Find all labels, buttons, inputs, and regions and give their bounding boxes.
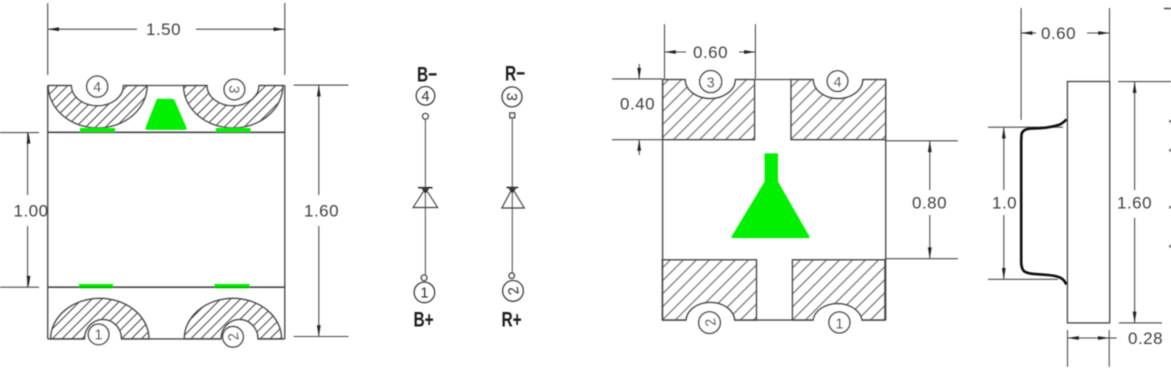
diode D2 (R) apex fill (509, 188, 517, 193)
svg-text:0.80: 0.80 (912, 194, 947, 213)
green bond pad bottom-left (79, 284, 113, 288)
pin 3 number circle (schematic) (502, 87, 522, 107)
svg-text:3: 3 (225, 85, 242, 94)
dimension 0.60 dimension line (bottom view) (665, 51, 687, 53)
green LED die (funnel) bottom view (732, 153, 810, 238)
pin 1 number circle (bottom view) (829, 312, 850, 333)
svg-text:0.60: 0.60 (1041, 24, 1076, 43)
dimension 0.40 extension line bottom (612, 139, 663, 141)
svg-text:1.0: 1.0 (992, 194, 1017, 213)
dimension 0.60 extension line right (bottom view) (754, 24, 756, 78)
dimension 1.60 extension line bottom (side view) (1119, 322, 1162, 324)
pin 4 number circle (bottom view) (827, 71, 848, 92)
pin 2 number circle (top view) (223, 327, 244, 348)
electrode profile curve (side view) (1021, 119, 1066, 284)
svg-text:0.60: 0.60 (693, 43, 728, 62)
svg-text:1: 1 (420, 286, 428, 302)
pin 2 number circle (bottom view) (699, 312, 721, 334)
dimension 1.60 extension line top (294, 84, 349, 86)
svg-text:1.60: 1.60 (304, 202, 339, 221)
svg-text:1: 1 (835, 316, 843, 332)
diode D1 (B) apex fill (422, 189, 430, 194)
dimension 1.00 dimension line (27, 133, 29, 195)
dimension 1.50 dimension line (48, 28, 137, 30)
dimension 0.80 extension line bottom (886, 258, 958, 260)
green LED die (trapezoid) top view (145, 99, 186, 130)
dimension 0.60 extension line left (side view) (1020, 8, 1022, 120)
dimension 1.0 dimension line (1003, 127, 1005, 190)
svg-text:4: 4 (833, 75, 841, 91)
dimension 1.00 extension line top (0, 132, 39, 134)
diode D1 (B) cathode bar (418, 187, 433, 189)
dimension 0.40 extension line top (612, 78, 663, 80)
solder pad 3 (bottom view top-left, hatched) (663, 80, 755, 140)
solder pad 1 (bottom view bottom-right, hatched) (792, 260, 885, 320)
castellation pad 2 (bottom-right, hatched half-annulus) (184, 298, 281, 339)
castellation pad 3 (top-right, hatched half-annulus) (184, 86, 283, 128)
castellation pad 4 (top-left, hatched half-annulus) (48, 86, 147, 128)
svg-text:2: 2 (506, 285, 523, 296)
svg-text:3: 3 (503, 92, 520, 101)
dimension 0.60 dimension line (side view) (1021, 32, 1036, 34)
package body outline side view (1067, 82, 1109, 323)
svg-text:1.00: 1.00 (14, 202, 49, 221)
svg-text:R+: R+ (502, 307, 522, 331)
castellation pad 1 (bottom-left, hatched half-annulus) (51, 298, 149, 339)
inner electrode line upper (48, 131, 285, 133)
pin 2 number circle (schematic) (503, 281, 524, 302)
dimension 1.00 extension line bottom (0, 286, 39, 288)
dimension 1.60 extension line top (side view) (1118, 81, 1171, 83)
svg-text:1: 1 (95, 328, 103, 344)
package body outline bottom view (663, 79, 686, 81)
svg-text:1.50: 1.50 (146, 20, 181, 39)
inner electrode line lower (48, 286, 285, 288)
dimension 1.60 dimension line (side view) (1134, 82, 1136, 190)
diode D2 (R) cathode bar (506, 187, 518, 189)
svg-text:B+: B+ (414, 307, 434, 331)
wire R cathode to anode (511, 118, 513, 273)
dimension 1.0 extension line top (988, 126, 1063, 128)
pin 4 number circle (schematic) (416, 87, 435, 106)
package body outline top view (48, 85, 72, 87)
dimension 0.28 dimension line (1068, 337, 1110, 339)
svg-text:0.40: 0.40 (620, 95, 655, 114)
anode terminal circle B (421, 275, 427, 281)
dimension 1.50 extension line left (47, 3, 49, 75)
green bond pad top-left (80, 128, 115, 132)
dimension 1.60 extension line bottom (294, 336, 349, 338)
diode D2 (R) triangle (502, 188, 525, 208)
dimension 0.60 extension line right (side view) (1109, 8, 1111, 82)
green bond pad bottom-right (215, 284, 250, 288)
dimension 0.28 extension line left (1067, 330, 1069, 367)
anode terminal circle R (509, 273, 515, 279)
svg-text:R−: R− (505, 61, 525, 85)
pin 3 number circle (top view) (224, 79, 245, 100)
pin 3 number circle (bottom view) (700, 71, 722, 93)
cathode terminal square R (510, 113, 515, 118)
wire B cathode to anode (424, 120, 426, 275)
dimension 1.60 dimension line (318, 85, 320, 195)
diode D1 (B) triangle (413, 189, 438, 208)
dimension 0.28 extension line right (1108, 330, 1110, 367)
dimension 0.80 extension line top (886, 140, 958, 142)
svg-text:1.60: 1.60 (1117, 194, 1152, 213)
green bond pad top-right (216, 128, 251, 132)
cathode terminal circle B (422, 113, 428, 119)
svg-text:0.28: 0.28 (1128, 329, 1163, 348)
svg-text:4: 4 (93, 80, 101, 96)
drawing border artifact top-right (1164, 8, 1171, 10)
svg-text:3: 3 (707, 76, 715, 92)
pin 4 number circle (top view) (87, 76, 108, 97)
dimension 0.80 dimension line (929, 141, 931, 190)
solder pad 4 (bottom view top-right, hatched) (791, 80, 886, 140)
svg-text:4: 4 (421, 89, 429, 105)
svg-text:B−: B− (417, 62, 437, 86)
drawing border artifact dots right edge (1169, 120, 1171, 123)
dimension 1.50 extension line right (284, 3, 286, 75)
solder pad 2 (bottom view bottom-left, hatched) (662, 260, 756, 320)
dimension 0.60 extension line left (bottom view) (664, 24, 666, 78)
pin 1 number circle (schematic) (414, 282, 435, 303)
dimension 1.0 extension line bottom (988, 278, 1058, 280)
dimension 0.40 arrow stubs (638, 64, 640, 79)
pin 1 number circle (top view) (88, 324, 109, 345)
